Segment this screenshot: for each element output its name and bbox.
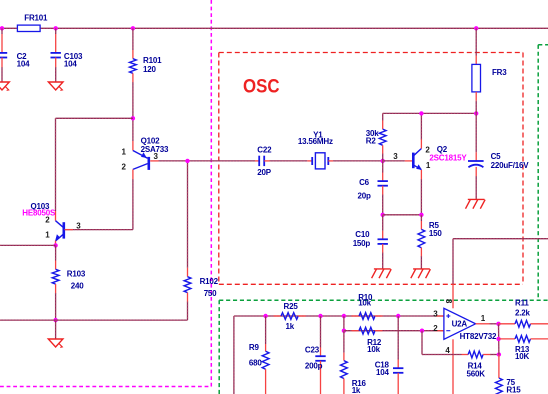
OSC red dashed box left (218, 53, 220, 285)
node junction FR3/C5 (474, 111, 478, 115)
svg-text:1: 1 (45, 231, 50, 240)
wire node to R5 (420, 215, 422, 221)
svg-text:150: 150 (429, 229, 442, 238)
pin R2.1 (382, 121, 384, 130)
svg-text:R2: R2 (366, 137, 377, 146)
svg-text:Q102: Q102 (141, 136, 161, 145)
wire opamp +input net (234, 315, 444, 317)
ground GND bottom-left (48, 339, 63, 347)
wire C2 top lead (1, 28, 3, 34)
pin C5.2 (475, 167, 477, 176)
capacitor C22 (258, 156, 260, 166)
resistor R102 (184, 277, 191, 293)
pin Q2.2 collector stub (420, 140, 422, 149)
svg-text:560K: 560K (467, 370, 486, 379)
node junction R9 (263, 314, 267, 318)
pin R2.2 (382, 145, 384, 153)
magenta region box bottom edge (0, 386, 211, 388)
svg-text:HE8050S: HE8050S (22, 209, 56, 218)
wire R102 bottom lead (187, 302, 189, 321)
svg-text:1k: 1k (352, 386, 361, 394)
svg-text:10k: 10k (358, 299, 371, 308)
wire feedback vertical (421, 331, 423, 355)
wire R5 to ground (420, 256, 422, 269)
pin R16.2 lead (343, 379, 345, 394)
pin C22.2 (264, 160, 269, 162)
svg-text:220uF/16V: 220uF/16V (491, 161, 530, 170)
svg-text:1: 1 (122, 147, 127, 156)
pin R9.1 (265, 344, 267, 351)
resistor R9 (262, 351, 269, 369)
svg-text:C5: C5 (491, 152, 502, 161)
node junction C18 (396, 314, 400, 318)
green right box left edge (537, 45, 539, 299)
pin C10.1 (382, 231, 384, 240)
resistor R25 (274, 315, 282, 317)
capacitor C18 (393, 367, 403, 369)
capacitor C2 (0, 52, 7, 54)
svg-text:3: 3 (433, 309, 438, 318)
pin Q102.2 collector stub (132, 169, 134, 179)
wire left net at emitter (0, 244, 56, 246)
node junction collector net (419, 111, 423, 115)
wire R2 bottom lead (382, 154, 384, 161)
green right box top edge (538, 44, 548, 46)
crystal Y1 (312, 153, 328, 169)
wire R2 top lead (382, 113, 384, 120)
resistor R101 (130, 59, 137, 74)
wire feedback horizontal (422, 354, 462, 356)
pin Q2.3 base stub (405, 160, 413, 162)
node junction emitter/Q103-collector net (131, 116, 135, 120)
svg-text:R15: R15 (506, 386, 521, 394)
wire to R9 (265, 316, 267, 344)
pin C2.2 (1, 58, 3, 68)
pin R5.2 (420, 248, 422, 256)
pin Q102.1 emitter stub (132, 141, 134, 151)
transistor Q2 (413, 149, 421, 170)
pin C6.2 (382, 186, 384, 195)
wire FR3 top lead (475, 28, 477, 55)
svg-text:R101: R101 (143, 56, 162, 65)
svg-text:104: 104 (64, 59, 77, 68)
wire output to junction (490, 323, 499, 325)
svg-text:FR3: FR3 (492, 68, 507, 77)
wire C5 to ground (475, 176, 477, 199)
pin R16.1 (343, 353, 345, 361)
wire node to C5 (475, 113, 477, 152)
svg-text:C23: C23 (305, 345, 320, 354)
wire R16 top to -input net (343, 316, 345, 331)
svg-text:3: 3 (76, 222, 81, 231)
svg-text:C6: C6 (359, 178, 370, 187)
svg-text:150p: 150p (353, 239, 371, 248)
node junction R101/top rail (131, 26, 135, 30)
wire U2A.4 down (452, 349, 454, 394)
transistor Q103 (56, 221, 64, 241)
ground GND under C103 (48, 82, 63, 90)
svg-text:2: 2 (45, 216, 50, 225)
pin R9.2 lead (265, 369, 267, 394)
node junction bottom-left net (53, 318, 57, 322)
ground earth under C10 (374, 268, 391, 270)
pin C23.1 (320, 348, 322, 357)
pin R101.2 (132, 73, 134, 82)
OSC red dashed box bottom (219, 283, 523, 285)
svg-text:2: 2 (122, 163, 127, 172)
pin C6.1 (382, 173, 384, 182)
pin Q103.2 collector stub (55, 211, 57, 221)
node junction C2/top rail (0, 26, 4, 30)
capacitor C103 (51, 52, 61, 54)
svg-text:2SC1815Y: 2SC1815Y (429, 153, 467, 162)
svg-text:2: 2 (433, 324, 438, 333)
svg-text:120: 120 (143, 65, 156, 74)
pin R103.1 (55, 261, 57, 270)
pin R5.1 (420, 221, 422, 229)
wire R14 to output vertical (490, 354, 499, 356)
pin R101.1 (132, 50, 134, 59)
resistor R15 (498, 355, 500, 379)
wire C10 to ground (382, 253, 384, 269)
wire FR3 bottom lead (475, 101, 477, 114)
OSC red dashed box right (522, 53, 524, 285)
svg-text:R103: R103 (67, 269, 86, 278)
resistor R10 (352, 315, 360, 317)
node junction R2/C6 tap (381, 159, 385, 163)
node junction R13 tap (496, 337, 500, 341)
wire node to C6 (382, 161, 384, 173)
svg-text:104: 104 (376, 368, 389, 377)
wire R102 top lead (187, 161, 189, 268)
capacitor C6 (378, 180, 388, 182)
resistor R14 (462, 354, 469, 356)
svg-text:750: 750 (204, 289, 217, 298)
resistor R5 (418, 229, 425, 247)
svg-text:240: 240 (71, 281, 84, 290)
node junction C6/C10 (381, 213, 385, 217)
wire C10 node to emitter node (383, 214, 422, 216)
transistor Q102 (133, 151, 149, 170)
capacitor C23 (315, 355, 325, 357)
wire to ground (55, 320, 57, 339)
pin C103.2 (55, 58, 57, 68)
node junction output (496, 322, 500, 326)
wire to C23 (320, 316, 322, 348)
pin Q102.3 base stub (150, 160, 158, 162)
pin R102.1 (187, 268, 189, 277)
node junction R16/R10 top (342, 314, 346, 318)
svg-text:20P: 20P (257, 168, 271, 177)
capacitor C10 (378, 238, 388, 240)
svg-text:OSC: OSC (243, 77, 280, 98)
ground earth under R5 (413, 268, 430, 270)
pin R103.2 (55, 284, 57, 293)
wire Q2 emitter down (420, 179, 422, 215)
wire opamp V+ net vertical (452, 239, 454, 284)
pin C5.1 (475, 152, 477, 161)
wire to R16 (343, 331, 345, 353)
node junction emitter/R5 (419, 213, 423, 217)
svg-text:R9: R9 (249, 343, 260, 352)
pin U2A.4 stub (452, 339, 454, 349)
pin Y1.2 (328, 160, 333, 162)
pin FR3.2 (475, 92, 477, 101)
pin Y1.1 (307, 160, 312, 162)
wire R101 to Q102 emitter (132, 82, 134, 141)
wire Q103 collector net vertical (55, 118, 57, 211)
wire C22 to Y1 (270, 160, 308, 162)
node junction R102 tap (185, 159, 189, 163)
pin FR3.1 (475, 56, 477, 65)
svg-text:10k: 10k (367, 345, 380, 354)
resistor R103 (52, 269, 59, 284)
wire Q103 collector net horizontal (56, 117, 133, 119)
fuse FR101 (17, 25, 40, 31)
svg-text:680: 680 (249, 359, 262, 368)
pin C2.1 (1, 34, 3, 53)
capacitor C5 (polarized) (468, 160, 484, 162)
svg-text:2.2k: 2.2k (515, 308, 531, 317)
node junction Q103 emitter (53, 243, 57, 247)
ground GND under C2 (0, 82, 9, 90)
pin C18.2 lead (397, 373, 399, 394)
wire Q102 collector down (132, 179, 134, 230)
svg-text:20p: 20p (358, 192, 371, 201)
resistor R12 (352, 330, 360, 332)
wire bottom-left horizontal net (0, 319, 188, 321)
pin U2A.2 stub (436, 330, 444, 332)
wire output vertical (498, 324, 500, 355)
pin U2A.1 stub (476, 323, 490, 325)
node junction feedback tap (420, 329, 424, 333)
resistor R11 (499, 323, 516, 325)
wire C103 top lead (55, 28, 57, 34)
svg-text:U2A: U2A (452, 320, 468, 329)
fuse FR3 (472, 64, 481, 92)
pin R102.2 (187, 293, 189, 302)
svg-text:13.56MHz: 13.56MHz (298, 137, 333, 146)
pin Q103.1 emitter stub (55, 241, 57, 246)
wire opamp V+ net horizontal (453, 238, 548, 240)
pin C18.1 (397, 360, 399, 369)
wire Q102 collector to Q103 base (65, 229, 133, 231)
node junction R12/R16 (342, 329, 346, 333)
wire R103 to bottom net (55, 293, 57, 320)
wire C2 to ground (1, 67, 3, 82)
wire to R103 (55, 245, 57, 260)
resistor R2 (379, 129, 386, 145)
wire C103 to ground (55, 67, 57, 82)
wire Y1 to R2/C6 node (333, 160, 383, 162)
wire node to C10 (382, 215, 384, 231)
pin C22.1 (255, 160, 259, 162)
node junction R14/R15 (497, 352, 501, 356)
svg-text:C22: C22 (257, 146, 272, 155)
wire bottom stub 1 (233, 316, 235, 394)
wire R101 top lead (132, 28, 134, 50)
svg-text:200p: 200p (305, 362, 323, 371)
wire C6 to C10 node (382, 195, 384, 215)
node junction C103/top rail (54, 26, 58, 30)
svg-text:10K: 10K (515, 352, 529, 361)
ground earth under C5 (468, 198, 485, 200)
magenta region box right edge (210, 0, 212, 387)
pin C10.2 (382, 244, 384, 253)
green bottom box left edge (218, 300, 220, 394)
pin U2A.8 stub (452, 284, 454, 308)
pin C23.2 lead (320, 361, 322, 394)
wire opamp -input net (344, 330, 444, 332)
node junction C23 (318, 314, 322, 318)
node junction FR3/top rail (474, 26, 478, 30)
OSC red dashed box top (219, 52, 523, 54)
svg-text:1: 1 (481, 314, 486, 323)
svg-text:R25: R25 (284, 302, 299, 311)
pin U2A.3 stub (436, 315, 444, 317)
wire Q2 collector up (420, 113, 422, 139)
wire collector net horizontal (383, 112, 477, 114)
svg-text:R11: R11 (515, 299, 529, 308)
svg-text:FR101: FR101 (24, 14, 48, 23)
svg-text:3: 3 (393, 152, 398, 161)
wire node to Q2 base (383, 160, 405, 162)
svg-text:HT82V732: HT82V732 (460, 332, 497, 341)
green bottom box top edge (219, 299, 548, 301)
wire to C18 (397, 316, 399, 360)
op-amp U2A (444, 308, 476, 339)
svg-text:C10: C10 (355, 230, 370, 239)
resistor R16 (341, 361, 348, 379)
svg-text:R102: R102 (200, 277, 219, 286)
wire top power rail (0, 27, 548, 29)
wire Q102 base net to C22 (159, 160, 256, 162)
pin C103.1 (55, 34, 57, 53)
svg-text:104: 104 (17, 59, 30, 68)
svg-text:1: 1 (426, 161, 431, 170)
svg-text:1k: 1k (286, 322, 295, 331)
pin Q2.1 emitter stub (420, 170, 422, 179)
resistor R13 (499, 338, 515, 340)
svg-text:8: 8 (444, 299, 453, 304)
